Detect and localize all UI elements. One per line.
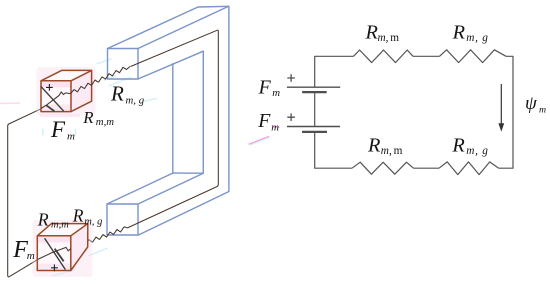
resistor R_m,m (circuit top): [354, 50, 414, 63]
label psi_m (flux): [525, 93, 546, 116]
svg-text:R: R: [37, 210, 49, 230]
svg-text:R: R: [365, 21, 379, 43]
resistor R_m,g (circuit bottom): [439, 162, 499, 175]
svg-text:F: F: [257, 110, 271, 132]
label R_m,m (circuit bottom): [367, 134, 403, 157]
label F_m (bottom source): [257, 110, 279, 134]
wire: left return loop (top magnet to bottom magnet): [8, 109, 71, 277]
magnet F_m (top) with battery plates and +: [37, 67, 96, 116]
label R_m,m (top magnet): [82, 108, 114, 128]
flux arrow psi_m: [498, 84, 504, 132]
svg-text:R: R: [452, 21, 466, 43]
svg-text:m, g: m, g: [466, 32, 488, 44]
svg-text:m,m: m,m: [378, 32, 400, 44]
svg-text:m,m: m,m: [96, 116, 114, 128]
battery F_m (bottom source): [287, 113, 340, 131]
magnet F_m (bottom) with battery plates and +: [33, 220, 93, 277]
battery F_m (top source): [287, 74, 340, 92]
svg-text:m: m: [27, 250, 35, 262]
label R_m,g (circuit bottom): [451, 134, 488, 157]
svg-text:m: m: [271, 121, 279, 133]
svg-text:m,m: m,m: [51, 220, 69, 231]
svg-text:R: R: [451, 134, 465, 156]
resistor R_m,g (circuit top): [440, 50, 507, 63]
resistor R_m,m (bottom magnet reluctance zigzag): [71, 237, 100, 249]
svg-text:R: R: [82, 108, 93, 127]
svg-text:F: F: [12, 237, 28, 263]
label R_m,m (bottom magnet): [37, 210, 69, 231]
svg-text:R: R: [367, 134, 381, 156]
svg-text:R: R: [110, 81, 124, 105]
svg-text:F: F: [50, 117, 66, 142]
svg-text:m: m: [67, 130, 75, 142]
label R_m,g (bottom left): [72, 205, 103, 227]
artifact pink line near F_m: [249, 127, 280, 144]
resistor R_m,m (circuit bottom): [352, 162, 414, 174]
svg-text:F: F: [258, 77, 272, 99]
svg-text:R: R: [72, 205, 84, 225]
wire through top magnet face: [41, 92, 71, 109]
svg-text:ψ: ψ: [525, 93, 538, 114]
svg-text:m, g: m, g: [126, 95, 145, 107]
svg-text:m, g: m, g: [466, 145, 488, 157]
wire through bottom magnet face: [38, 247, 71, 259]
wire: equivalent circuit loop: [315, 56, 513, 168]
label F_m (bottom magnet): [12, 237, 35, 263]
resistor R_m,g (bottom air-gap reluctance zigzag): [100, 227, 128, 240]
label F_m (top magnet): [50, 117, 75, 143]
magnetic core (C-core, blue wireframe): [107, 6, 229, 235]
resistor R_m,g (top air-gap reluctance zigzag): [99, 67, 131, 83]
label R_m,g (top left): [110, 81, 145, 106]
svg-text:m: m: [539, 105, 546, 116]
label R_m,g (circuit top): [452, 21, 489, 44]
svg-text:m: m: [272, 87, 280, 99]
label R_m,m (circuit top): [365, 21, 400, 44]
label F_m (top source): [258, 77, 281, 99]
wire: flux path through core (top arm, right leg, bottom arm): [128, 30, 219, 228]
svg-text:m, g: m, g: [84, 216, 102, 227]
svg-text:m,m: m,m: [381, 145, 403, 157]
resistor R_m,m (top magnet reluctance zigzag): [71, 80, 99, 94]
